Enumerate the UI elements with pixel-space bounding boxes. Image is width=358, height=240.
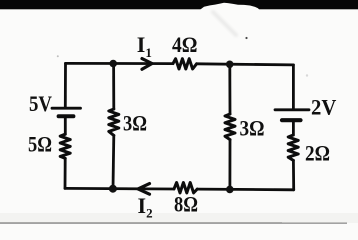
dust speck <box>245 37 247 39</box>
svg-text:4Ω: 4Ω <box>172 32 198 57</box>
current arrow I2 (points left) <box>138 184 150 195</box>
wire: battery 5V to resistor 5ohm <box>64 116 67 134</box>
svg-text:3Ω: 3Ω <box>240 116 265 141</box>
svg-text:2V: 2V <box>311 95 336 120</box>
wire: mid-right branch lower <box>228 140 231 190</box>
junction dot top-left <box>109 60 117 68</box>
battery 2V long plate <box>275 108 309 111</box>
current arrow I1 (points right) <box>142 59 152 70</box>
battery 2V short plate <box>282 118 301 122</box>
scan top border bar <box>0 0 358 9</box>
resistor 5ohm zigzag <box>60 134 70 158</box>
wire: resistor 5ohm to bottom left corner <box>64 158 67 188</box>
wire: left branch upper (corner to battery 5V) <box>64 63 67 107</box>
torn-paper white blob in top bar <box>199 3 260 15</box>
resistor 8ohm zigzag <box>174 183 197 193</box>
svg-text:8Ω: 8Ω <box>174 192 198 217</box>
battery 5V long plate <box>52 107 81 110</box>
scan bottom edge line <box>0 222 282 224</box>
junction dot bottom-right <box>226 186 234 194</box>
wire: top left segment (node A to resistor 4ohm) <box>66 62 174 65</box>
wire: battery 2V to resistor 2ohm <box>292 120 295 135</box>
wire: bottom left segment <box>65 187 174 190</box>
wire: top right segment <box>197 64 294 65</box>
svg-text:5V: 5V <box>29 91 52 116</box>
wire: mid-left branch upper <box>112 64 115 110</box>
svg-text:2Ω: 2Ω <box>305 141 330 166</box>
resistor 4ohm zigzag <box>173 59 197 69</box>
svg-text:3Ω: 3Ω <box>123 110 147 135</box>
resistor 3ohm left zigzag <box>109 109 119 135</box>
svg-text:5Ω: 5Ω <box>28 132 52 157</box>
dust speck <box>306 74 308 76</box>
resistor 3ohm right zigzag <box>225 114 235 140</box>
wire: bottom right segment <box>197 188 294 191</box>
junction dot bottom-left <box>109 185 117 193</box>
battery 5V short plate <box>59 114 74 118</box>
junction dot top-right <box>226 61 234 69</box>
wire: right branch upper (corner to battery 2V) <box>292 65 295 109</box>
faint scan shading at bottom <box>0 213 358 223</box>
dust speck <box>57 55 59 57</box>
wire: mid-right branch upper <box>228 64 231 114</box>
wire: mid-left branch lower <box>112 135 116 188</box>
wire: resistor 2ohm to bottom right corner <box>292 160 295 189</box>
paper crease mark below blob <box>213 12 236 35</box>
resistor 2ohm zigzag <box>288 135 298 160</box>
